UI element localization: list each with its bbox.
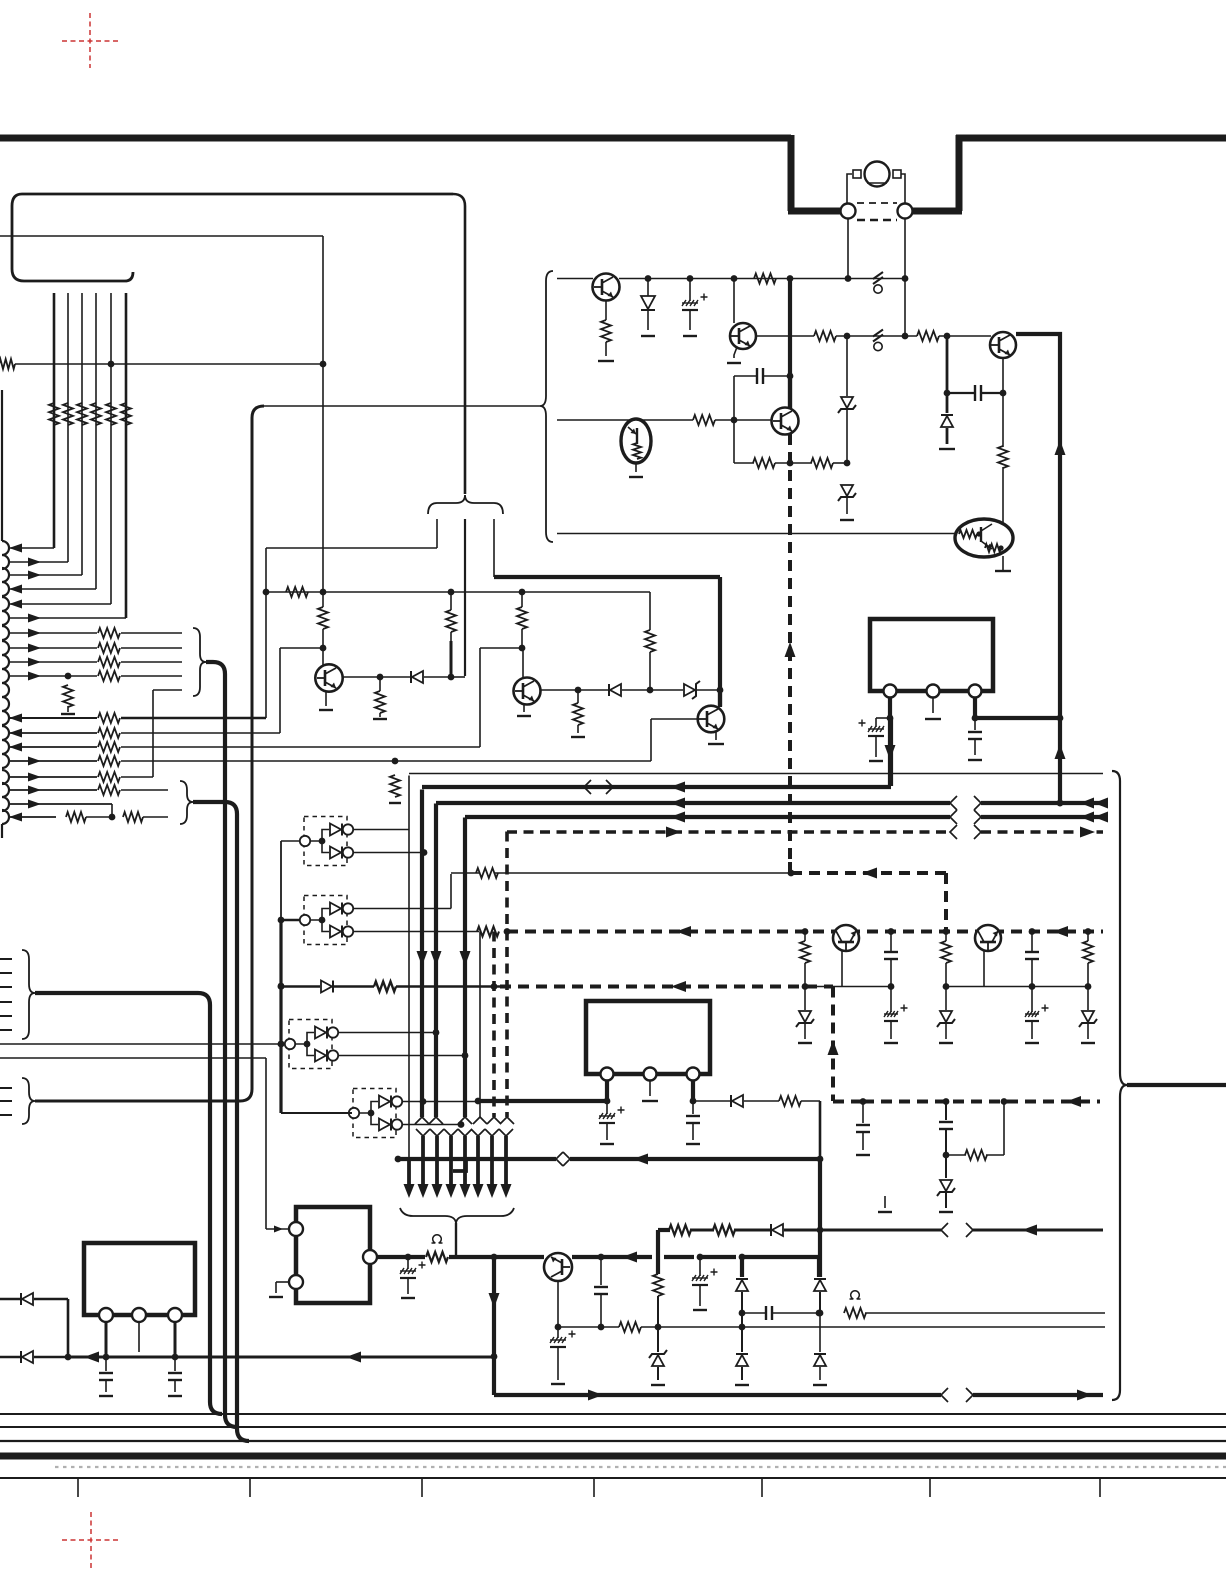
arrow signal out — [28, 658, 41, 667]
connector CN1 pin bumps — [2, 541, 9, 824]
wire — [380, 676, 410, 678]
stub group B 3 — [0, 1114, 12, 1116]
transistor Q8 — [833, 925, 859, 951]
break y817 — [950, 810, 957, 824]
wire y406 to PSU brace — [264, 405, 540, 407]
wire Q7 emitter — [715, 732, 717, 740]
break mark trunk end — [429, 1117, 443, 1124]
registration mark bottom-left (red cross) — [62, 1539, 120, 1541]
resistor row — [98, 643, 120, 653]
arrow right y1395 end — [1077, 1390, 1092, 1401]
wire Q9 emitter — [983, 951, 985, 987]
ground bar Q6 — [517, 715, 531, 717]
wire riser x266 pump — [265, 1058, 267, 1229]
wire PC1 out top — [353, 829, 409, 831]
wire bus y817 right — [981, 815, 1103, 819]
junction — [972, 715, 979, 722]
wire Q10 row — [377, 1255, 425, 1259]
arrow right y1395 — [588, 1390, 603, 1401]
wire row 14 — [121, 760, 651, 762]
stub group B 1 — [0, 1087, 12, 1089]
break mark trunk end — [458, 1117, 472, 1124]
junction — [1000, 390, 1007, 397]
capacitor C-g electrolytic — [557, 1327, 559, 1338]
wire Q12 emitter — [635, 463, 637, 472]
PC2 branch wires — [310, 909, 329, 932]
junction — [278, 1041, 285, 1048]
resistor+zener chain x946 — [945, 932, 947, 942]
arrow signal out — [28, 571, 41, 580]
bottom bus line 2 — [0, 1426, 1226, 1428]
arrow signal out — [28, 800, 41, 809]
zener chain x946c — [945, 1155, 947, 1178]
transistor Q6 — [514, 678, 541, 705]
junction — [65, 673, 72, 680]
junction x658 — [655, 1324, 662, 1331]
wire pump in — [266, 1228, 289, 1230]
resistor R-b — [814, 331, 836, 341]
bus y1159 right — [570, 1157, 820, 1161]
junction — [420, 1098, 427, 1105]
junction row931 — [1029, 928, 1036, 935]
wire — [801, 1100, 820, 1102]
wire top-left frame — [12, 194, 453, 281]
ground bar Q5 — [319, 709, 333, 711]
capacitor C-c — [756, 368, 758, 384]
wire — [784, 1229, 941, 1232]
arrow down trunk — [417, 951, 428, 966]
resistor Q6 base pulldown — [577, 690, 579, 703]
resistor row 13 — [98, 742, 120, 752]
wire bold x451 lower — [450, 641, 453, 677]
PC1 output pin top — [343, 824, 353, 834]
wire dashed row986 — [500, 985, 833, 989]
break mark lower start — [485, 1129, 499, 1136]
wire pump gnd — [276, 1281, 289, 1283]
bottom tick 4 — [593, 1479, 595, 1497]
junction — [278, 983, 285, 990]
junction row931 — [943, 928, 950, 935]
bottom tick 1 — [77, 1479, 79, 1497]
wire — [605, 300, 607, 320]
junction — [491, 983, 498, 990]
wire — [121, 675, 182, 677]
wire — [664, 1255, 694, 1259]
arrow into pump — [274, 1226, 283, 1233]
wire — [763, 375, 790, 377]
wire connector row 11 — [9, 717, 97, 719]
wire Q6 collector — [522, 648, 524, 678]
wire y873 — [451, 872, 479, 874]
wire y1395 right — [973, 1393, 1103, 1397]
arrow right y832 — [666, 827, 681, 838]
transistor Q5 — [315, 664, 342, 691]
wire x601 — [600, 1257, 602, 1285]
wire — [143, 816, 168, 818]
wire y987 right segment — [946, 986, 1088, 988]
resistor row 16 — [98, 785, 120, 795]
resistor x451 — [450, 592, 452, 610]
bottom tick 5 — [761, 1479, 763, 1497]
double arrow y803 — [1080, 798, 1094, 809]
wire brace center leg x465 — [464, 519, 466, 676]
junction — [687, 275, 694, 282]
break y1230 — [941, 1223, 948, 1237]
ground bar pin2 — [642, 1100, 658, 1102]
wire y336 b — [836, 335, 917, 337]
zener ZD-b — [841, 485, 853, 496]
resistor pulldown — [63, 685, 73, 707]
wire brace leg left — [436, 519, 438, 548]
bottom bus line 3 — [0, 1440, 1226, 1442]
junction — [504, 928, 511, 935]
wire x905 down — [904, 279, 906, 337]
ground bar pump — [269, 1296, 283, 1298]
wire — [34, 1356, 68, 1359]
wire lower trunk — [463, 1136, 467, 1184]
junction — [739, 1324, 746, 1331]
wire row 13 — [121, 746, 480, 748]
junction — [902, 333, 909, 340]
junction — [1057, 715, 1064, 722]
junction — [598, 1254, 605, 1261]
wire bundle vertical 1 — [53, 293, 56, 548]
wire — [846, 410, 848, 462]
IC U2 pin 1 — [884, 685, 897, 698]
capacitor C-e — [974, 718, 976, 730]
wire riser x280 — [279, 648, 281, 733]
junction — [448, 674, 455, 681]
capacitor C-f electrolytic — [407, 1257, 409, 1269]
wire riser x266 — [265, 548, 267, 718]
wire lower trunk — [504, 1136, 508, 1184]
bottom tick 3 — [421, 1479, 423, 1497]
bottom bus line 1 — [0, 1413, 1226, 1415]
junction — [109, 814, 116, 821]
resistor R-i — [476, 868, 498, 878]
resistor bundle R3 — [77, 403, 87, 425]
wire Q8 emitter — [841, 951, 843, 987]
ground bar — [813, 1384, 827, 1386]
wire bundle vertical 4 — [95, 293, 97, 589]
junction — [943, 1098, 950, 1105]
zener ZD-c — [684, 684, 695, 696]
wire riser x734c — [733, 420, 735, 463]
bus trunk from brace1 (x225) — [206, 662, 237, 1427]
resistor x658 — [656, 1257, 660, 1274]
arrow right y832 end — [1080, 827, 1095, 838]
transistor Q2 — [730, 323, 756, 349]
wire diode feed bottom — [0, 1356, 20, 1359]
arrow bus down — [487, 1184, 498, 1198]
wire trunk x409 — [408, 776, 410, 1160]
wire connector row — [9, 632, 97, 634]
diode D-h — [818, 1257, 822, 1277]
motor M1 body — [865, 162, 890, 187]
resistor R-j — [477, 927, 499, 937]
junction — [475, 1098, 482, 1105]
wire x790 dashed trunk — [788, 434, 792, 862]
wire — [819, 1313, 821, 1352]
break mark lower start — [444, 1129, 458, 1136]
wire bus y789 corner — [889, 718, 893, 786]
fuse link F1 — [873, 272, 883, 279]
wire Q2 emitter — [734, 347, 737, 358]
wire Q11 emitter — [1002, 556, 1004, 571]
wire U2 pin2 down — [932, 698, 934, 714]
junction — [108, 361, 115, 368]
wire — [693, 1100, 730, 1102]
wire horizontal y236 — [0, 235, 323, 237]
arrow signal in — [9, 585, 22, 594]
wire Q5 collector — [322, 648, 324, 665]
junction — [65, 1354, 72, 1361]
PC2 output pin top — [343, 903, 353, 913]
IC U3 pin 1 — [601, 1068, 614, 1081]
arrow bus down — [473, 1184, 484, 1198]
transistor Q1 — [593, 274, 620, 301]
arrow up on x1060 — [1055, 440, 1066, 455]
junction — [944, 333, 951, 340]
junction — [320, 645, 327, 652]
wire — [833, 462, 847, 464]
wire — [846, 498, 848, 514]
wire link to Q5 collector — [280, 647, 323, 649]
bottom thick border — [0, 1453, 1226, 1460]
arrow signal out — [28, 757, 41, 766]
junction — [817, 1310, 824, 1317]
PC1 branch wires — [310, 830, 329, 853]
arrow left y817 — [670, 812, 685, 823]
ground bar — [840, 519, 854, 521]
top border notch right vertical — [956, 135, 963, 211]
brace rows 7-10 — [193, 628, 206, 696]
arrow bus down — [446, 1184, 457, 1198]
wire — [690, 1229, 714, 1232]
junction row931 — [1085, 928, 1092, 935]
arrow signal in — [9, 714, 22, 723]
PC3 input pin — [285, 1039, 295, 1049]
PC2 output pin bottom — [343, 926, 353, 936]
transistor Q9 — [975, 925, 1001, 951]
diode D-b — [941, 416, 953, 427]
resistor R-e — [693, 415, 715, 425]
wire y592 — [266, 591, 650, 593]
wire lower trunk — [407, 1159, 411, 1184]
top border notch bottom-left — [788, 208, 849, 215]
stub group A 3 — [0, 986, 12, 988]
wire bus y832 right dashed — [981, 830, 1103, 834]
wire — [697, 689, 720, 691]
wire cap link — [876, 717, 890, 719]
diode D-l — [22, 1351, 33, 1363]
resistor R-f — [753, 458, 775, 468]
junction — [817, 1227, 824, 1234]
arrow signal out — [28, 786, 41, 795]
wire y1327 c — [641, 1326, 1105, 1328]
junction — [844, 333, 851, 340]
ground bar — [600, 1143, 614, 1145]
arrow up on x790 — [785, 642, 796, 657]
connector mating dashed bottom — [857, 219, 897, 222]
brace below arrows — [400, 1208, 514, 1223]
bottom tick 6 — [929, 1479, 931, 1497]
IC U2 body — [870, 619, 993, 691]
resistor R-top — [754, 274, 776, 284]
wire plug right down — [904, 219, 906, 278]
resistor bundle R6 — [121, 403, 131, 425]
arrow bus down — [418, 1184, 429, 1198]
Q11 internals — [959, 530, 977, 538]
wire bus y789 — [422, 785, 891, 789]
wire trunk x480 thin — [479, 932, 481, 1118]
diode D-a — [647, 281, 649, 296]
wire trunk x494 dashed — [492, 932, 496, 1118]
junction — [491, 1254, 498, 1261]
PC4 input pin — [349, 1108, 359, 1118]
break y803 — [950, 796, 957, 810]
IC U3 pin 2 — [644, 1068, 657, 1081]
wire bold x281 trunk — [280, 841, 282, 920]
capacitor C-b — [974, 385, 976, 401]
ground bar — [939, 448, 955, 450]
resistor Q1 emitter — [601, 320, 611, 342]
wire — [451, 676, 465, 678]
junction — [462, 1052, 469, 1059]
break mark trunk end — [415, 1117, 429, 1124]
wire stub into brace1 — [153, 689, 182, 691]
arrow bus down — [460, 1184, 471, 1198]
wire x947 bold — [946, 336, 949, 413]
wire lower trunk — [490, 1136, 494, 1184]
capacitor C-h — [594, 1286, 608, 1288]
bottom tick 2 — [249, 1479, 251, 1497]
IC U6 pin 3 — [168, 1308, 182, 1322]
wire bold row986 left — [281, 985, 320, 988]
stub group A 6 — [0, 1029, 12, 1031]
brace rows 16-18 — [180, 781, 193, 824]
ground bar — [693, 1309, 707, 1311]
capacitor U6-1 — [105, 1357, 107, 1371]
motor terminal left — [853, 170, 861, 178]
resistor R-d — [998, 446, 1008, 468]
wire Q6 base row y690 — [541, 689, 578, 691]
wire dashed x946 — [944, 873, 948, 931]
wire riser x451b — [450, 874, 452, 909]
wire x734 to Q2 — [733, 279, 735, 324]
wire y336 c — [939, 335, 991, 337]
resistor R-o — [426, 1252, 448, 1262]
wire — [572, 1255, 601, 1259]
wire y873 b — [495, 872, 791, 874]
arrow signal in — [9, 544, 22, 553]
stub group B 2 — [0, 1100, 12, 1102]
wire trunk x422 bold — [420, 790, 424, 1118]
junction — [278, 1041, 285, 1048]
bottom grey dashed line — [55, 1466, 1226, 1468]
wire trunk x465 bold — [463, 818, 467, 1118]
resistor left edge R-a — [0, 359, 15, 369]
resistor Q5 base pulldown — [379, 677, 381, 691]
wire trunk x507 dashed — [505, 832, 509, 1118]
junction — [697, 1254, 704, 1261]
arrow bus down — [432, 1184, 443, 1198]
diode D-k — [22, 1293, 33, 1305]
wire Q7 base — [651, 718, 698, 720]
wire PC3 out top — [338, 1032, 436, 1034]
ground bar Q1 — [598, 360, 614, 362]
resistor bundle R2 — [63, 403, 73, 425]
bus trunk from brace A (x210) — [35, 993, 222, 1414]
label ohm 2 — [850, 1291, 861, 1299]
junction — [103, 1354, 110, 1361]
IC U6 body — [84, 1243, 195, 1315]
junction — [575, 687, 582, 694]
wire bold y718 — [975, 716, 1060, 720]
ground bar — [99, 1395, 113, 1397]
wire dashed row y931 — [507, 930, 1103, 934]
junction — [377, 674, 384, 681]
wire Q5 emitter — [325, 691, 327, 706]
wire y420 row — [557, 419, 693, 421]
wire connector row — [9, 547, 54, 549]
wire — [1002, 393, 1004, 447]
wire — [600, 1294, 602, 1327]
wire — [449, 1255, 544, 1259]
junction — [816, 1310, 823, 1317]
junction — [902, 275, 909, 282]
wire — [1002, 467, 1004, 524]
wire — [121, 632, 182, 634]
dual transistor Q11 (oval) — [955, 519, 1013, 557]
wire U3 pin2 — [649, 1081, 651, 1097]
wire bold y1395 — [494, 1393, 941, 1397]
wire lower trunk — [449, 1136, 453, 1184]
resistor bundle R1 — [49, 403, 59, 425]
wire row y1357 — [68, 1356, 494, 1359]
ground bar — [401, 1297, 415, 1299]
arrow signal out — [28, 672, 41, 681]
arrow up x833 — [828, 1040, 839, 1055]
junction — [405, 1254, 412, 1261]
wire x847 — [846, 336, 848, 396]
junction — [647, 687, 654, 694]
break y832 — [950, 825, 957, 839]
ground bar — [686, 1143, 700, 1145]
junction — [860, 1098, 867, 1105]
wire brace right leg x494 — [493, 519, 495, 577]
wire bold y1101 left — [478, 1099, 607, 1103]
wire riser x112 — [111, 804, 113, 817]
junction — [731, 275, 738, 282]
wire cap link y376 — [734, 375, 757, 377]
junction — [604, 1098, 611, 1105]
junction — [845, 275, 852, 282]
wire PC1 out bottom — [353, 852, 424, 854]
wire riser x480 — [479, 648, 481, 747]
wire — [67, 706, 69, 712]
resistor x323 — [322, 592, 324, 607]
wire connector row — [9, 588, 96, 590]
wire y775 corner — [409, 773, 1103, 775]
wire bus y817 — [465, 815, 950, 819]
label ohm — [432, 1235, 443, 1243]
resistor bundle R5 — [106, 403, 116, 425]
wire connector row 18 — [9, 816, 56, 818]
resistor R-p — [619, 1322, 641, 1332]
PC2 input pin — [300, 915, 310, 925]
ground bar pin2 — [131, 1356, 147, 1358]
